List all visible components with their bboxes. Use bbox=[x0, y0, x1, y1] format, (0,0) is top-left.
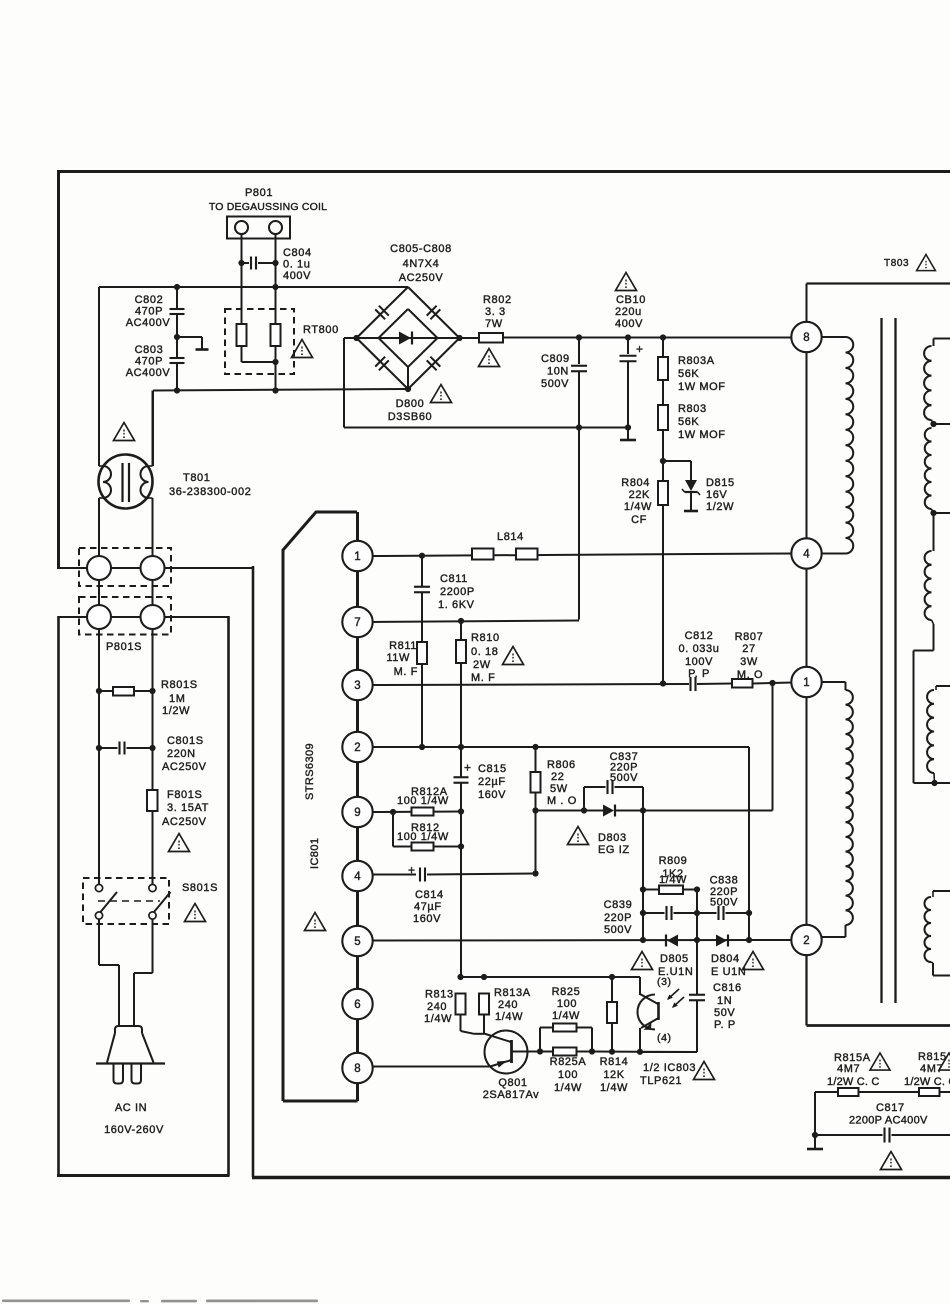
junction C837/D803 right bbox=[640, 807, 646, 813]
junction R801S right bbox=[149, 688, 155, 694]
wire to D815 bbox=[663, 460, 691, 462]
svg-text:240: 240 bbox=[498, 999, 518, 1011]
IC801 pin 8 circle bbox=[342, 1053, 372, 1083]
wire switch to plug right bbox=[152, 919, 154, 973]
junction R806 top bbox=[532, 744, 538, 750]
wire R806 bottom leg down to C814 bbox=[535, 811, 537, 874]
svg-text:3W: 3W bbox=[740, 656, 758, 668]
svg-text:500V: 500V bbox=[541, 378, 569, 390]
svg-text:R807: R807 bbox=[735, 631, 764, 643]
cold-ground stub D815 bbox=[684, 510, 698, 513]
connector circle P801S bbox=[87, 556, 111, 580]
svg-text:22µF: 22µF bbox=[478, 776, 506, 788]
connector circle P801S bbox=[141, 605, 165, 629]
warning triangle below R802 bbox=[479, 349, 500, 367]
svg-text:C811: C811 bbox=[440, 573, 468, 585]
svg-text:C805-C808: C805-C808 bbox=[390, 243, 452, 255]
junction P801 right / bus bbox=[272, 284, 278, 290]
opto-coupler IC803 photo-transistor bbox=[639, 977, 641, 995]
IC803 transistor bar bbox=[657, 1002, 660, 1020]
warning triangle near T803 bbox=[917, 254, 936, 270]
junction C838 right bbox=[746, 910, 752, 916]
svg-text:1/4W: 1/4W bbox=[600, 1082, 628, 1094]
svg-text:+: + bbox=[636, 342, 644, 356]
capacitor C802 bbox=[176, 287, 178, 309]
svg-text:R810: R810 bbox=[471, 632, 500, 644]
junction C817 left / ground bbox=[812, 1132, 818, 1138]
svg-text:160V: 160V bbox=[413, 913, 441, 925]
junction C802 top bbox=[174, 284, 180, 290]
wire riser pin3 to D803 line bbox=[772, 683, 774, 811]
warning triangle right of D804 label bbox=[743, 952, 764, 970]
junction secondary tap 2 bbox=[930, 510, 936, 516]
wire right AC drop to T801 bbox=[152, 391, 154, 467]
svg-text:220N: 220N bbox=[167, 748, 196, 760]
svg-text:7W: 7W bbox=[485, 318, 503, 330]
wire bridge centerline bbox=[357, 337, 460, 339]
thermistor RT800 dashed box bbox=[225, 309, 294, 374]
svg-text:1/4W: 1/4W bbox=[552, 1010, 580, 1022]
svg-text:T803: T803 bbox=[884, 258, 909, 269]
resistor R814 bbox=[611, 977, 613, 1002]
svg-text:R802: R802 bbox=[483, 294, 512, 306]
T803 pin 2 circle bbox=[791, 925, 821, 955]
capacitor C803 bbox=[176, 337, 178, 358]
warning triangle near R810 bbox=[503, 647, 524, 665]
junction C809 bottom on return bus bbox=[576, 424, 582, 430]
svg-text:2: 2 bbox=[803, 935, 809, 947]
resistor R825A bbox=[553, 1048, 577, 1056]
resistor R813 bbox=[456, 994, 466, 1015]
IC801 pin chain segment bbox=[356, 812, 359, 876]
svg-text:D800: D800 bbox=[396, 398, 425, 410]
wire bridge right to R802 bbox=[460, 337, 480, 339]
warning triangle near IC803 label bbox=[694, 1062, 715, 1080]
svg-text:500V: 500V bbox=[710, 897, 738, 909]
svg-text:1: 1 bbox=[803, 677, 809, 689]
junction bridge left bbox=[353, 335, 359, 341]
wire pin4 line bbox=[372, 874, 416, 876]
svg-text:3. 15AT: 3. 15AT bbox=[167, 802, 209, 814]
wire right leg down to fuse bbox=[152, 710, 154, 790]
AC input sub-box bbox=[57, 616, 60, 1176]
capacitor C811 bbox=[421, 556, 423, 587]
T803 pin 8 circle bbox=[791, 322, 821, 352]
main border top bbox=[57, 170, 950, 173]
wire RT800 bottom link bbox=[242, 361, 276, 363]
svg-text:P. P: P. P bbox=[688, 668, 710, 680]
svg-text:1/2W: 1/2W bbox=[706, 501, 734, 513]
wire T801 left down to P801S bbox=[98, 498, 100, 556]
wire C815 bottom down through pin4/pin5 crossings bbox=[460, 783, 462, 977]
IC801 pin 5 circle bbox=[342, 926, 372, 956]
plug base line bbox=[96, 1062, 165, 1064]
svg-text:36-238300-002: 36-238300-002 bbox=[169, 486, 251, 498]
IC801 pin chain segment bbox=[356, 685, 359, 747]
transistor Q801 2SA817 bbox=[485, 1031, 528, 1074]
svg-text:4: 4 bbox=[354, 871, 361, 883]
resistor R812A bbox=[412, 808, 434, 816]
junction C814 right on R806 leg bbox=[532, 870, 538, 876]
svg-text:1/2 IC803: 1/2 IC803 bbox=[643, 1062, 696, 1074]
svg-text:R825A: R825A bbox=[550, 1056, 587, 1068]
junction C804 left bbox=[238, 260, 244, 266]
svg-text:C802: C802 bbox=[135, 294, 164, 306]
junction R814 bottom bbox=[609, 1049, 615, 1055]
svg-text:100: 100 bbox=[557, 998, 577, 1010]
wire bias line y=977 bbox=[461, 976, 641, 978]
svg-text:R806: R806 bbox=[547, 759, 576, 771]
svg-text:M. F: M. F bbox=[394, 666, 418, 678]
IC801 pin 7 circle bbox=[342, 607, 372, 637]
wire down to T803 pin8 bbox=[805, 284, 807, 323]
svg-text:2200P: 2200P bbox=[440, 586, 475, 598]
svg-text:1/4W: 1/4W bbox=[554, 1082, 582, 1094]
svg-text:CF: CF bbox=[631, 514, 647, 526]
wire border jog through P801S upper row bbox=[59, 567, 254, 569]
svg-text:STRS6309: STRS6309 bbox=[304, 743, 316, 800]
svg-text:2: 2 bbox=[354, 742, 360, 754]
wire R804 down to pin3 line bbox=[662, 505, 664, 684]
svg-text:160V: 160V bbox=[478, 789, 506, 801]
T801 left winding bbox=[103, 466, 111, 498]
junction C839/C838 bbox=[694, 910, 700, 916]
svg-text:8: 8 bbox=[354, 1063, 360, 1075]
junction R803/R804/D815 bbox=[660, 458, 666, 464]
T803 pin 1 circle bbox=[791, 667, 821, 697]
svg-text:AC250V: AC250V bbox=[162, 761, 207, 773]
junction D805 left bbox=[640, 937, 646, 943]
svg-text:(4): (4) bbox=[657, 1032, 672, 1044]
warning triangle right of R815 bbox=[939, 1053, 950, 1070]
svg-text:RT800: RT800 bbox=[303, 324, 339, 336]
connector P801 bbox=[227, 217, 290, 239]
wire P801 left pin down to RT800 bbox=[241, 234, 243, 325]
warning triangle below F801S bbox=[169, 834, 190, 852]
wire pin2 line bbox=[372, 746, 749, 748]
warning triangle near D803 bbox=[568, 827, 589, 845]
wire between connector rows right bbox=[152, 580, 154, 605]
warning triangle near S801S bbox=[185, 904, 206, 922]
junction bridge bottom bbox=[405, 386, 411, 392]
junction R825 pair right bbox=[589, 1048, 595, 1054]
svg-text:TLP621: TLP621 bbox=[640, 1075, 682, 1087]
svg-text:100 1/4W: 100 1/4W bbox=[397, 831, 449, 843]
capacitor element of C805-C808 bbox=[427, 357, 441, 371]
svg-text:P801S: P801S bbox=[106, 641, 142, 653]
bridge rectifier D800 outer diamond bbox=[357, 287, 460, 389]
wire T801 right down to P801S bbox=[152, 498, 154, 556]
main border left bbox=[57, 170, 60, 569]
warning triangle near T801 bbox=[114, 423, 135, 441]
secondary step-down wire bbox=[913, 651, 915, 784]
IC801 pin chain segment bbox=[356, 747, 359, 812]
T803 secondary winding a bbox=[924, 346, 931, 420]
IC803 collector lead bbox=[640, 994, 658, 1004]
junction R825 pair left bbox=[537, 1048, 543, 1054]
IC801 pin 3 circle bbox=[342, 670, 372, 700]
resistor R807 bbox=[732, 679, 753, 688]
T803 secondary winding d bbox=[927, 690, 934, 773]
diode D804 (pointing right) bbox=[716, 935, 727, 947]
junction C801S right bbox=[149, 745, 155, 751]
wire switch to plug left bbox=[98, 919, 100, 965]
Q801 collector lead bbox=[484, 1034, 511, 1043]
junction secondary tap 3 bbox=[931, 780, 937, 786]
svg-text:C809: C809 bbox=[541, 353, 570, 365]
junction R809 left bbox=[640, 886, 646, 892]
svg-text:10N: 10N bbox=[547, 366, 569, 378]
svg-text:M. O: M. O bbox=[737, 669, 763, 681]
junction R813A top bbox=[481, 974, 487, 980]
svg-text:C816: C816 bbox=[713, 982, 742, 994]
wire left leg down to switch bbox=[98, 710, 100, 885]
svg-text:R825: R825 bbox=[552, 986, 581, 998]
junction R812 right bbox=[458, 843, 464, 849]
T803 secondary winding b bbox=[925, 428, 932, 509]
svg-text:470P: 470P bbox=[135, 306, 163, 318]
svg-text:22K: 22K bbox=[629, 489, 650, 501]
warning triangle left of D805 label bbox=[632, 952, 653, 970]
IC801 pin 6 circle bbox=[342, 989, 372, 1019]
svg-text:1M: 1M bbox=[169, 693, 185, 705]
svg-text:1N: 1N bbox=[717, 995, 732, 1007]
svg-text:0. 18: 0. 18 bbox=[471, 646, 498, 658]
svg-text:1/2W C. C: 1/2W C. C bbox=[904, 1076, 950, 1088]
svg-text:160V-260V: 160V-260V bbox=[104, 1124, 164, 1136]
junction C804 right bbox=[272, 260, 278, 266]
Q801 base lead out bbox=[512, 1051, 528, 1053]
junction R813 top bbox=[457, 974, 463, 980]
junction R812A right bbox=[458, 808, 464, 814]
svg-text:AC250V: AC250V bbox=[399, 272, 444, 284]
svg-text:11W: 11W bbox=[386, 652, 410, 664]
svg-text:1/4W: 1/4W bbox=[495, 1011, 523, 1023]
IC801 pin 9 circle bbox=[342, 797, 372, 827]
svg-text:22: 22 bbox=[551, 771, 564, 783]
T803 pin 4 circle bbox=[791, 538, 821, 568]
junction C837/D803 left bbox=[581, 807, 587, 813]
resistor RT800 left element bbox=[237, 324, 247, 346]
svg-text:100V: 100V bbox=[685, 656, 713, 668]
resistor R825 bbox=[553, 1024, 577, 1032]
svg-text:50V: 50V bbox=[714, 1007, 735, 1019]
wire P801 right pin down to RT800 bbox=[275, 234, 277, 325]
diode D805 (pointing left) bbox=[667, 935, 678, 947]
svg-text:P. P: P. P bbox=[714, 1019, 736, 1031]
svg-text:0. 033u: 0. 033u bbox=[679, 643, 720, 655]
capacitor C837 bbox=[583, 787, 585, 811]
svg-text:F801S: F801S bbox=[167, 789, 202, 801]
svg-text:R811: R811 bbox=[389, 640, 417, 652]
svg-text:47µF: 47µF bbox=[414, 901, 442, 913]
svg-text:2200P AC400V: 2200P AC400V bbox=[849, 1115, 928, 1127]
connector P801S upper dashed box bbox=[79, 548, 171, 586]
svg-text:R803: R803 bbox=[678, 403, 707, 415]
svg-text:D805: D805 bbox=[660, 953, 689, 965]
AC plug body bbox=[115, 1026, 142, 1033]
resistor R803A bbox=[662, 338, 664, 358]
junction RT800 bottom / bus bbox=[272, 387, 278, 393]
svg-text:AC IN: AC IN bbox=[115, 1102, 147, 1114]
svg-text:4N7X4: 4N7X4 bbox=[403, 258, 440, 270]
svg-text:2W: 2W bbox=[473, 659, 491, 671]
svg-text:IC801: IC801 bbox=[309, 838, 321, 869]
zener diode D815 bbox=[690, 461, 692, 480]
resistor R810 bbox=[460, 621, 462, 640]
junction R812 branch left bbox=[390, 809, 396, 815]
svg-text:500V: 500V bbox=[604, 924, 632, 936]
svg-text:100: 100 bbox=[558, 1069, 578, 1081]
IC801 pin chain segment bbox=[356, 622, 359, 685]
wire T803 pin2 down bbox=[805, 954, 807, 1026]
resistor R815 bbox=[919, 1088, 940, 1096]
svg-text:C801S: C801S bbox=[167, 735, 204, 747]
T801 core line 2 bbox=[128, 463, 130, 502]
svg-text:C814: C814 bbox=[415, 889, 444, 901]
op-amp/regulator IC801 STRS6309 body outline bbox=[283, 512, 357, 550]
warning triangle below C817 bbox=[881, 1152, 902, 1170]
T801 core line 1 bbox=[121, 463, 123, 502]
wire base line to C816 bbox=[592, 1051, 697, 1054]
capacitor C809 bbox=[578, 338, 580, 365]
wire bridge left corner to return bus bbox=[344, 337, 357, 339]
junction opto emitter bbox=[637, 1049, 643, 1055]
svg-text:1/4W: 1/4W bbox=[424, 1013, 452, 1025]
svg-text:M . O: M . O bbox=[547, 795, 577, 807]
wire R815A left leg down bbox=[814, 1092, 816, 1135]
junction C802/C803 midpoint bbox=[174, 334, 180, 340]
warning triangle above CB10 bbox=[616, 273, 637, 291]
T803 winding 1-2 bbox=[821, 681, 846, 683]
svg-text:16V: 16V bbox=[706, 489, 727, 501]
warning triangle between R815A/R815 bbox=[870, 1053, 890, 1070]
svg-text:C839: C839 bbox=[604, 899, 633, 911]
wire lower AC bus y=390 bbox=[153, 389, 408, 391]
svg-text:AC400V: AC400V bbox=[126, 367, 171, 379]
capacitor element of C805-C808 bbox=[427, 306, 441, 320]
resistor RT800 right element bbox=[271, 324, 281, 346]
wire AC box top through P801S lower row bbox=[59, 616, 229, 618]
svg-text:400V: 400V bbox=[283, 270, 311, 282]
svg-text:3: 3 bbox=[354, 680, 360, 692]
resistor R801S bbox=[98, 687, 100, 710]
svg-text:(3): (3) bbox=[657, 976, 672, 988]
capacitor C838 bbox=[697, 912, 717, 914]
wire R809 right leg down bbox=[696, 890, 698, 941]
svg-text:R803A: R803A bbox=[678, 355, 715, 367]
svg-text:R815: R815 bbox=[918, 1051, 947, 1063]
T803 secondary winding e bbox=[933, 890, 950, 892]
wire C809 line down to pin7 line bbox=[578, 428, 580, 620]
resistor R812 parallel branch bbox=[392, 812, 394, 847]
svg-text:12K: 12K bbox=[603, 1069, 624, 1081]
junction R804 bottom on pin3 line bbox=[660, 680, 666, 686]
transformer T801 (line filter) bbox=[99, 455, 153, 509]
IC803 emitter lead bbox=[641, 1018, 659, 1028]
svg-text:D815: D815 bbox=[706, 477, 735, 489]
svg-text:R813: R813 bbox=[425, 989, 454, 1001]
svg-text:0. 1u: 0. 1u bbox=[283, 259, 310, 271]
svg-text:4M7: 4M7 bbox=[837, 1063, 860, 1075]
wire T803 top feed bbox=[807, 282, 950, 284]
svg-text:4: 4 bbox=[803, 549, 810, 561]
ground chassis stub bbox=[177, 336, 202, 338]
bottom-left scan smudge bbox=[2, 1300, 318, 1303]
junction CB10 bottom / return bus end bbox=[625, 424, 631, 430]
svg-text:EG IZ: EG IZ bbox=[598, 844, 630, 856]
svg-text:TO DEGAUSSING COIL: TO DEGAUSSING COIL bbox=[209, 201, 327, 213]
wire to C837/D803 pair bbox=[536, 810, 585, 812]
warning triangle inside IC801 area bbox=[305, 913, 326, 931]
IC801 pin chain segment bbox=[356, 1004, 359, 1068]
T801 right winding bbox=[141, 466, 149, 498]
wire pin9 line bbox=[372, 811, 461, 814]
fuse F801S bbox=[147, 790, 158, 811]
wire pin2 right leg down bbox=[748, 747, 750, 940]
warning triangle RT800 bbox=[292, 340, 313, 358]
junction RT800 bottom bbox=[272, 359, 278, 365]
T803 secondary winding c bbox=[925, 551, 932, 620]
switch coupling dashed line bbox=[98, 900, 160, 902]
IC801 pin chain segment bbox=[356, 556, 359, 622]
main border left lower (x=253) bbox=[252, 566, 255, 1177]
ground stub below C817 junction bbox=[814, 1135, 816, 1148]
junction R803A top bbox=[660, 334, 666, 340]
svg-text:1/4W: 1/4W bbox=[624, 501, 652, 513]
junction C811 top bbox=[419, 553, 425, 559]
svg-text:220P: 220P bbox=[604, 912, 632, 924]
svg-text:M. F: M. F bbox=[471, 672, 495, 684]
connector circle P801S bbox=[87, 605, 111, 629]
svg-text:D803: D803 bbox=[598, 832, 627, 844]
svg-text:AC400V: AC400V bbox=[126, 317, 171, 329]
diode D803 bbox=[584, 810, 603, 812]
svg-text:5: 5 bbox=[354, 936, 360, 948]
svg-text:L814: L814 bbox=[497, 531, 524, 543]
svg-text:AC250V: AC250V bbox=[162, 816, 207, 828]
svg-text:1/4W: 1/4W bbox=[659, 874, 687, 886]
T803 core lines bbox=[880, 318, 882, 1003]
svg-text:240: 240 bbox=[427, 1001, 447, 1013]
wire C816 bottom to base line bbox=[640, 1051, 697, 1053]
svg-text:R801S: R801S bbox=[161, 679, 198, 691]
thick bus to secondary ground bbox=[807, 1024, 950, 1027]
svg-text:E U1N: E U1N bbox=[711, 966, 746, 978]
svg-text:C817: C817 bbox=[876, 1102, 905, 1114]
svg-text:100 1/4W: 100 1/4W bbox=[397, 795, 449, 807]
junction bridge right bbox=[456, 335, 462, 341]
capacitor element of C805-C808 bbox=[375, 357, 389, 371]
junction C803 bottom bbox=[174, 387, 180, 393]
capacitor C804 bbox=[242, 262, 250, 264]
T803 primary pin chain vertical bbox=[805, 322, 807, 1026]
IC801 pin chain segment bbox=[356, 941, 359, 1004]
svg-text:5W: 5W bbox=[550, 783, 568, 795]
capacitor CB10 (electrolytic) bbox=[627, 338, 629, 355]
switch S801S right pole bbox=[149, 884, 156, 891]
svg-text:CB10: CB10 bbox=[616, 294, 646, 306]
IC801 pin 2 circle bbox=[342, 732, 372, 762]
wire lower-left connector down bbox=[98, 629, 100, 687]
junction R811 bottom bbox=[419, 744, 425, 750]
svg-text:+: + bbox=[408, 863, 416, 877]
junction R806 bottom bbox=[532, 807, 538, 813]
svg-text:1: 1 bbox=[354, 551, 360, 563]
junction R814 top bbox=[609, 974, 615, 980]
IC801 pin 4 circle bbox=[342, 861, 372, 891]
bridge inner diamond bbox=[379, 309, 438, 367]
